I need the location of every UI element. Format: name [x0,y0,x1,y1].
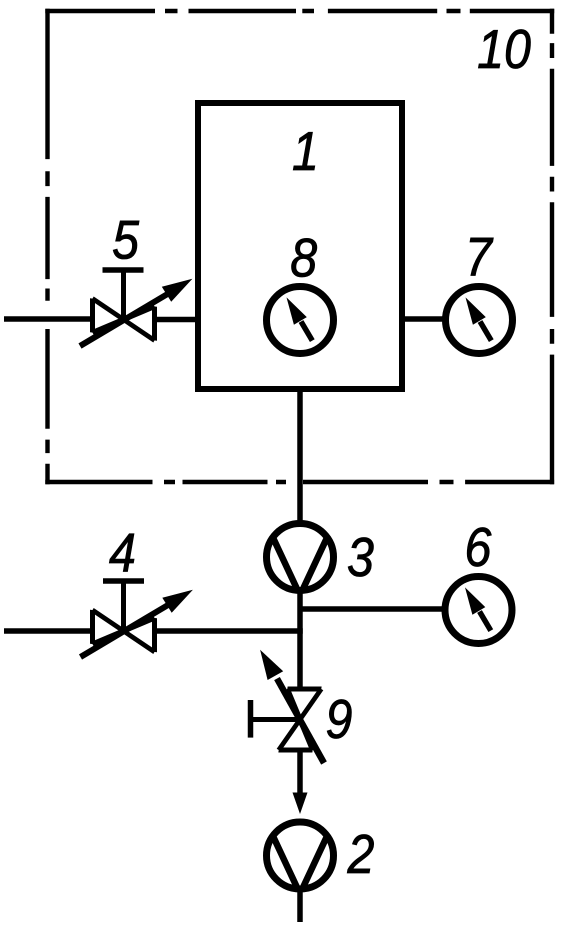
wire junction to gauge 6 [300,606,448,612]
svg-text:8: 8 [290,227,317,289]
pump 3 [267,524,334,591]
wire block 1 to gauge 7 [402,316,448,322]
wire valve 4 to junction [154,628,303,634]
svg-text:10: 10 [477,18,531,80]
svg-text:2: 2 [347,823,375,885]
wire inlet to valve 4 [4,628,93,634]
svg-text:3: 3 [347,526,374,588]
block 1 (apparatus body) [198,103,402,389]
valve 4 (regulating valve) [81,581,193,657]
pump 2 [267,822,334,889]
wire valve 9 to pump 2 [297,750,303,796]
gauge 8 (pressure gauge) [267,287,334,354]
wire valve 5 to block 1 [154,317,198,323]
wire pump 3 to valve 9 [297,590,303,690]
svg-text:4: 4 [109,522,136,584]
flow direction arrow into pump 2 [293,793,308,815]
wire block 1 bottom to pump 3 [297,389,303,525]
svg-text:1: 1 [292,120,319,182]
svg-text:6: 6 [465,516,492,578]
enclosure 10 (dash-dot boundary box) [45,9,554,484]
svg-text:9: 9 [326,688,353,750]
svg-text:7: 7 [465,226,494,288]
wire inlet to valve 5 [4,316,93,322]
gauge 7 (pressure gauge) [446,287,513,354]
svg-text:5: 5 [112,209,139,271]
wire outlet below pump 2 [297,890,303,922]
gauge 6 (pressure gauge) [445,577,512,644]
valve 5 (regulating valve) [80,270,192,346]
valve 9 (regulating valve, vertical) [251,650,325,763]
